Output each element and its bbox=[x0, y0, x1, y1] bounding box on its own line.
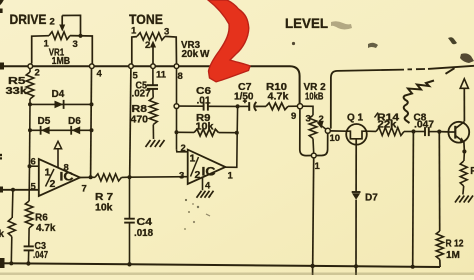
label VR1 value 1MB bbox=[52, 56, 71, 67]
wire main input bus bbox=[0, 66, 300, 103]
svg-text:8: 8 bbox=[64, 163, 69, 174]
label C8 bbox=[414, 113, 427, 124]
wire C8 left down bbox=[412, 132, 415, 267]
artifact left edge tick bbox=[0, 9, 3, 14]
junction C8 right bbox=[437, 130, 441, 134]
potentiometer VR1 bbox=[32, 32, 93, 64]
wire VR2 to rail bbox=[313, 158, 314, 266]
label VR3 pin3 bbox=[164, 27, 169, 38]
ground under U1b bbox=[197, 191, 214, 198]
resistor R10 bbox=[256, 103, 297, 110]
wire column to R9 bbox=[176, 108, 178, 149]
vplus arrow U1a bbox=[54, 141, 61, 167]
label C4 bbox=[137, 217, 153, 228]
wire diode column left bbox=[29, 104, 32, 166]
svg-text:.047: .047 bbox=[414, 119, 434, 130]
node 9 bbox=[297, 104, 302, 109]
capacitor C7 plus bbox=[243, 99, 247, 103]
svg-text:R 12: R 12 bbox=[446, 239, 464, 250]
transistor Q1 bbox=[346, 124, 367, 145]
junction pin6 bbox=[28, 164, 32, 168]
svg-text:D5: D5 bbox=[38, 116, 51, 127]
label VR1 pin1 bbox=[44, 39, 50, 50]
wire ground rail bbox=[0, 263, 440, 267]
wire U1b pin4 bbox=[202, 178, 204, 191]
label VR2 value bbox=[305, 92, 324, 103]
junction rail 4 bbox=[310, 264, 314, 268]
resistor R5 bbox=[26, 68, 34, 104]
label C8 value bbox=[414, 119, 434, 130]
label U1b pin1 bbox=[228, 171, 234, 182]
junction rail 3 bbox=[127, 262, 131, 266]
label C6 bbox=[196, 86, 211, 97]
label U1b pin3 bbox=[179, 171, 184, 182]
artifact smudge LEVEL bbox=[331, 21, 352, 29]
svg-text:3: 3 bbox=[164, 27, 169, 38]
svg-text:D7: D7 bbox=[365, 193, 378, 204]
svg-text:33k: 33k bbox=[6, 86, 28, 97]
artifact scribble R14 bbox=[404, 81, 434, 124]
ground under R8 bbox=[146, 140, 165, 147]
label D7 bbox=[365, 193, 378, 204]
junction D4 right bbox=[90, 102, 94, 106]
svg-text:R6: R6 bbox=[35, 213, 48, 224]
label C5 bbox=[136, 80, 148, 91]
artifact speck c bbox=[448, 37, 457, 44]
wire below rail a bbox=[312, 266, 314, 275]
wire pin2 bbox=[177, 149, 188, 152]
wire left edge blob low bbox=[0, 258, 5, 268]
resistor R12 bbox=[436, 231, 443, 267]
wire U1a pin5 input bbox=[0, 189, 39, 191]
label U1a pin5 bbox=[31, 182, 37, 193]
wire C4 top bbox=[129, 177, 131, 218]
svg-text:IC: IC bbox=[202, 167, 216, 179]
wire VR2 right rail bbox=[316, 133, 327, 155]
node 11 bbox=[151, 64, 156, 69]
artifact left edge ticks bbox=[0, 154, 2, 160]
svg-text:10k: 10k bbox=[95, 203, 113, 214]
label R6 value bbox=[36, 223, 56, 234]
resistor input shunt bbox=[8, 190, 15, 264]
label C7 bbox=[238, 82, 252, 93]
node 4 bbox=[90, 64, 95, 69]
wire node8 column bbox=[176, 68, 178, 103]
junction C8 left bbox=[411, 129, 415, 133]
wire node10 Q1 bbox=[330, 130, 346, 132]
svg-text:.018: .018 bbox=[134, 228, 153, 239]
svg-text:D4: D4 bbox=[52, 89, 65, 100]
svg-text:10kB: 10kB bbox=[305, 92, 324, 103]
wire Q2 collector bbox=[463, 89, 465, 122]
label R5 value bbox=[6, 86, 28, 97]
svg-text:10k: 10k bbox=[196, 122, 214, 133]
wire Q2 emitter bbox=[463, 142, 466, 152]
label D6 bbox=[68, 116, 81, 127]
artifact speck d bbox=[460, 53, 474, 63]
svg-text:3: 3 bbox=[306, 114, 311, 125]
node C6 left bbox=[174, 104, 179, 109]
node 8 bbox=[174, 64, 179, 69]
resistor R6 bbox=[25, 201, 33, 246]
potentiometer VR3 bbox=[132, 33, 177, 64]
svg-text:Q 1: Q 1 bbox=[347, 113, 364, 124]
svg-text:1: 1 bbox=[315, 161, 321, 172]
svg-text:3: 3 bbox=[179, 171, 184, 182]
artifact specks center bbox=[184, 195, 211, 230]
svg-text:20k: 20k bbox=[182, 49, 199, 60]
node 5 bbox=[129, 64, 134, 69]
label VR3 bbox=[181, 40, 200, 51]
svg-text:2: 2 bbox=[145, 40, 150, 51]
label R13 partial bbox=[470, 166, 474, 177]
resistor R13 bbox=[460, 152, 467, 195]
svg-text:11: 11 bbox=[156, 70, 167, 81]
label VR2 pin3 bbox=[306, 114, 311, 125]
label node 5 bbox=[133, 71, 139, 82]
svg-text:D6: D6 bbox=[68, 116, 81, 127]
artifact speck b bbox=[368, 43, 378, 48]
ground under R13 bbox=[455, 196, 473, 203]
junction D5 left bbox=[28, 128, 32, 132]
label U1b pin4 bbox=[205, 181, 211, 192]
artifact top-left corner bbox=[0, 0, 4, 5]
label VR1 pin2 bbox=[50, 17, 55, 28]
svg-text:7: 7 bbox=[82, 184, 87, 195]
label VR1 bbox=[49, 47, 65, 58]
svg-text:C4: C4 bbox=[137, 217, 153, 228]
resistor R8 bbox=[149, 98, 157, 140]
label R12 bbox=[446, 239, 464, 250]
annotation red arrow bbox=[208, 0, 250, 82]
node 2 bbox=[28, 64, 33, 69]
svg-text:2: 2 bbox=[50, 17, 55, 28]
label Q1 bbox=[347, 113, 364, 124]
junction VR1 pin3 bbox=[78, 34, 82, 38]
junction input bbox=[11, 188, 15, 192]
wire below rail b bbox=[355, 266, 357, 275]
svg-text:4.7k: 4.7k bbox=[268, 92, 289, 103]
vplus arrow Q2 bbox=[460, 79, 468, 89]
node 10 bbox=[325, 128, 330, 133]
svg-text:2: 2 bbox=[50, 178, 56, 190]
junction D4 left bbox=[28, 102, 32, 106]
svg-text:6: 6 bbox=[31, 157, 36, 168]
svg-text:.027: .027 bbox=[132, 89, 151, 100]
svg-text:1: 1 bbox=[190, 153, 196, 165]
svg-text:.01: .01 bbox=[197, 96, 211, 107]
label R8 bbox=[132, 104, 148, 115]
label R10 bbox=[266, 82, 287, 93]
capacitor C3 bbox=[24, 246, 34, 263]
svg-text:5: 5 bbox=[31, 182, 37, 193]
label DRIVE bbox=[10, 11, 47, 27]
capacitor C7 bbox=[240, 102, 258, 111]
label VR2 bottom 1 bbox=[315, 161, 321, 172]
potentiometer VR2 bbox=[303, 106, 317, 153]
svg-text:22k: 22k bbox=[378, 120, 397, 131]
wire R7 to pin3 bbox=[130, 176, 188, 179]
svg-text:2: 2 bbox=[195, 169, 201, 181]
label U1b pin2 bbox=[181, 143, 186, 154]
scribble under supply bbox=[446, 68, 455, 74]
junction rail 5 bbox=[354, 264, 358, 268]
svg-text:4: 4 bbox=[97, 69, 103, 80]
svg-text:10: 10 bbox=[330, 133, 341, 144]
node VR2 bottom bbox=[311, 153, 316, 158]
svg-text:470: 470 bbox=[131, 115, 149, 126]
label R14 bbox=[377, 113, 400, 124]
resistor R14 bbox=[367, 128, 414, 136]
label VR3 value bbox=[182, 49, 211, 60]
junction D6 right bbox=[90, 128, 94, 132]
wire Q1 to D7 bbox=[355, 145, 357, 192]
wire pin6 to R6 bbox=[28, 166, 30, 201]
svg-text:R8: R8 bbox=[132, 104, 148, 115]
svg-text:2: 2 bbox=[319, 114, 324, 125]
wire diode column right bbox=[90, 68, 93, 176]
junction Q2 emitter bbox=[462, 149, 466, 153]
artifact left edge mid bbox=[0, 187, 3, 193]
label R10 value bbox=[268, 92, 289, 103]
svg-text:R 7: R 7 bbox=[95, 192, 114, 203]
junction rail 1 bbox=[9, 261, 13, 265]
label U1a half bbox=[45, 167, 74, 191]
label R7 value bbox=[95, 203, 113, 214]
wire U1a output bbox=[80, 176, 95, 178]
label R9 value bbox=[196, 122, 214, 133]
wire supply rail bbox=[331, 66, 474, 129]
junction R9 right bbox=[235, 131, 239, 135]
svg-text:R: R bbox=[470, 166, 474, 177]
label R9 bbox=[196, 113, 211, 124]
junction rail 6 bbox=[411, 265, 415, 269]
resistor R9 bbox=[179, 129, 237, 136]
capacitor C6 bbox=[179, 102, 238, 111]
label D4 bbox=[52, 89, 65, 100]
capacitor C4 bbox=[124, 219, 135, 265]
label R7 bbox=[95, 192, 114, 203]
artifact speck a bbox=[292, 42, 295, 45]
diode D6 bbox=[71, 126, 80, 135]
op-amp U1b half IC bbox=[188, 150, 226, 184]
svg-text:1: 1 bbox=[228, 171, 234, 182]
label node 4 bbox=[97, 69, 103, 80]
wiper arrow VR3 bbox=[150, 41, 156, 65]
wire node5 column bbox=[130, 68, 131, 177]
label VR2 bbox=[304, 82, 327, 93]
label VR2 pin2 bbox=[319, 114, 324, 125]
label D5 bbox=[38, 116, 51, 127]
svg-text:9: 9 bbox=[291, 111, 296, 122]
label VR1 pin3 bbox=[73, 39, 78, 50]
label R5 bbox=[8, 76, 26, 87]
wire output stub bbox=[225, 106, 237, 167]
label C6 value bbox=[197, 96, 211, 107]
wire U1a pin6 bbox=[30, 165, 39, 167]
label R8 value bbox=[131, 115, 149, 126]
svg-text:2: 2 bbox=[35, 68, 40, 79]
artifact tick R14 bbox=[375, 113, 379, 118]
diode D5 bbox=[30, 126, 92, 135]
label U1a pin7 bbox=[82, 184, 87, 195]
label R14 value bbox=[378, 120, 397, 131]
artifact bottom shade bbox=[0, 273, 474, 276]
svg-text:1: 1 bbox=[131, 26, 137, 37]
label node 2 bbox=[35, 68, 40, 79]
label R12 value bbox=[446, 250, 460, 261]
label C4 value bbox=[134, 228, 153, 239]
label C3 value bbox=[33, 250, 48, 261]
label node 8 bbox=[178, 71, 183, 82]
resistor R7 bbox=[95, 174, 130, 181]
wire Q2 base bbox=[439, 131, 448, 133]
junction rail 2 bbox=[26, 261, 30, 265]
wire Q2 base column bbox=[438, 132, 440, 231]
svg-text:4: 4 bbox=[205, 181, 211, 192]
label LEVEL bbox=[285, 16, 328, 31]
junction R9 left bbox=[175, 130, 179, 134]
label node 11 bbox=[156, 70, 167, 81]
svg-text:W: W bbox=[200, 49, 210, 60]
wiper arrow VR2 bbox=[317, 121, 326, 129]
diode D4 bbox=[30, 100, 92, 109]
junction C6 right bbox=[236, 104, 240, 108]
op-amp U1a half IC bbox=[39, 159, 80, 196]
label node 9 bbox=[291, 111, 296, 122]
diode D7 bbox=[352, 192, 361, 266]
svg-text:1M: 1M bbox=[446, 250, 460, 261]
label U1b half bbox=[190, 153, 216, 182]
svg-text:1MB: 1MB bbox=[52, 56, 71, 67]
svg-text:4.7k: 4.7k bbox=[36, 223, 56, 234]
svg-text:k: k bbox=[0, 229, 5, 240]
wire VR2 left rail bbox=[300, 109, 312, 156]
svg-text:1/50: 1/50 bbox=[234, 92, 254, 103]
capacitor C8 bbox=[416, 127, 440, 136]
svg-text:3: 3 bbox=[73, 39, 78, 50]
label U1a pin6 bbox=[31, 157, 36, 168]
transistor Q2 bbox=[448, 122, 469, 143]
junction R7 C4 bbox=[127, 175, 131, 179]
label input shunt k bbox=[0, 229, 5, 240]
capacitor C5 bbox=[147, 68, 158, 97]
label TONE bbox=[129, 11, 163, 27]
label C3 bbox=[35, 241, 47, 252]
wire left edge blob bbox=[0, 63, 4, 70]
svg-text:8: 8 bbox=[178, 71, 183, 82]
wiper arrow VR1 bbox=[59, 15, 80, 34]
label U1a pin8 bbox=[64, 163, 69, 174]
label node 10 bbox=[330, 133, 341, 144]
label VR3 pin1 bbox=[131, 26, 137, 37]
label C5 value bbox=[132, 89, 151, 100]
label VR3 pin2 bbox=[145, 40, 150, 51]
junction output U1a bbox=[89, 175, 93, 179]
svg-text:DRIVE: DRIVE bbox=[10, 11, 47, 27]
svg-text:2: 2 bbox=[181, 143, 186, 154]
label R6 bbox=[35, 213, 48, 224]
svg-text:.047: .047 bbox=[33, 250, 48, 261]
label C7 value bbox=[234, 92, 254, 103]
svg-text:LEVEL: LEVEL bbox=[285, 16, 328, 31]
